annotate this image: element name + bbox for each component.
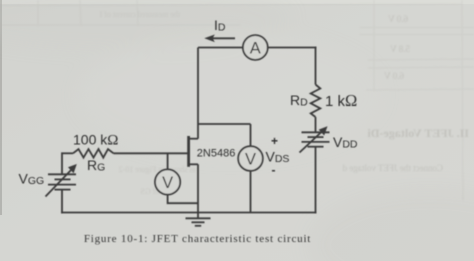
wire VDD to bottom rail [315, 147, 317, 214]
transistor Q1 2N5486 JFET [187, 136, 198, 167]
svg-text:100 kΩ: 100 kΩ [73, 131, 118, 148]
wire gate to VGS meter [167, 153, 169, 169]
svg-text:as shown in Figure 10-2: as shown in Figure 10-2 [119, 165, 196, 174]
svg-text:6.0 V: 6.0 V [384, 71, 404, 81]
wire corner to RG [62, 152, 73, 154]
svg-text:6.0 V: 6.0 V [388, 14, 408, 24]
faint bleed-through mirrored text (decorative) [99, 10, 469, 196]
wire top rail left (drain node to ammeter) [198, 47, 244, 49]
resistor RD 1 kΩ [311, 85, 321, 118]
source VGG (variable battery) [46, 164, 77, 197]
ground [186, 218, 211, 226]
wire VDS meter top [250, 124, 252, 146]
svg-text:V: V [245, 151, 256, 169]
svg-text:2N5486: 2N5486 [197, 148, 236, 160]
faint bleed-through table grid (decorative) [0, 0, 474, 200]
wire drain vertical [197, 48, 199, 139]
svg-text:Connect the JFET voltage d: Connect the JFET voltage d [342, 163, 443, 173]
wire right vertical (to RD) [315, 47, 317, 85]
svg-text:V: V [162, 174, 173, 192]
circuit drawing [46, 35, 330, 226]
voltmeter VGS [155, 169, 180, 194]
svg-text:the measured current of I: the measured current of I [99, 10, 180, 19]
svg-text:1 kΩ: 1 kΩ [325, 91, 357, 110]
source VDD (variable battery) [300, 126, 330, 152]
ammeter A [243, 35, 268, 60]
svg-text:A: A [250, 40, 261, 58]
wire left vertical top (VGG to RG corner) [61, 152, 63, 174]
resistor RG 100 kΩ [73, 149, 114, 158]
wire source vertical to ground [197, 164, 199, 218]
wire VGS meter bottom to source [168, 195, 198, 204]
wire RD to VDD [315, 117, 317, 132]
wire VDS meter bottom [250, 171, 252, 213]
svg-text:+: + [271, 134, 278, 148]
svg-text:-: - [272, 163, 276, 177]
wire bottom rail [61, 212, 316, 214]
svg-text:II. JFET Voltage-Di: II. JFET Voltage-Di [367, 126, 469, 140]
svg-text:Figure 10-1: JFET characterist: Figure 10-1: JFET characteristic test ci… [84, 233, 311, 245]
node drain to VDS branch [198, 123, 251, 125]
svg-text:5.8 V: 5.8 V [390, 44, 410, 54]
voltmeter VDS [238, 146, 263, 171]
wire top rail right (ammeter to RD branch) [268, 47, 317, 49]
wire RG to gate [114, 152, 188, 154]
current arrow ID [204, 35, 235, 43]
wire VGG to bottom rail [61, 190, 63, 214]
